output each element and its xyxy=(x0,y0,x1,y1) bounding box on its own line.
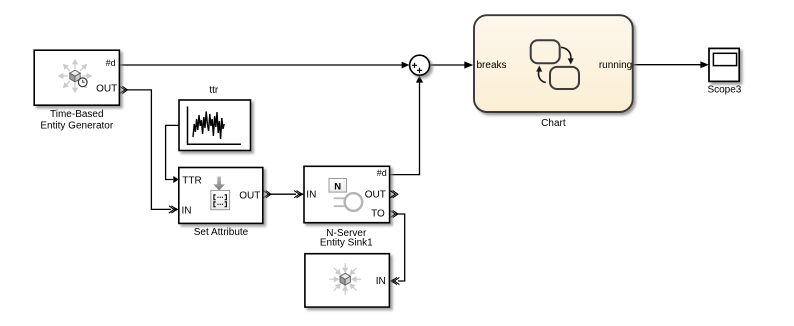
plus sign left input xyxy=(412,63,417,68)
svg-text:#d: #d xyxy=(106,58,116,68)
block N-Server Entity Sink1 xyxy=(304,166,398,248)
block Entity Sink xyxy=(305,254,390,307)
wire Chart running to Scope3 xyxy=(633,61,709,68)
svg-text:ttr: ttr xyxy=(209,85,219,96)
svg-text:running: running xyxy=(599,60,632,71)
wire N-Server TO to Entity Sink IN xyxy=(389,210,404,284)
svg-text:IN: IN xyxy=(306,190,316,201)
svg-text:TO: TO xyxy=(371,209,385,220)
icon starburst in xyxy=(323,257,368,302)
wire Sum to Chart breaks xyxy=(430,61,474,68)
wire branch to scope ttr and TTR port xyxy=(166,125,179,183)
wire OUT Time-Based Entity Generator to Set Attribute IN xyxy=(120,86,179,213)
svg-text:Chart: Chart xyxy=(541,118,566,129)
svg-text:OUT: OUT xyxy=(365,190,386,201)
transition arrow left xyxy=(539,72,546,83)
wire #d Time-Based Entity Generator to Sum xyxy=(120,62,410,69)
state box 2 xyxy=(550,67,579,89)
block Scope3 xyxy=(707,48,741,95)
icon server circle xyxy=(345,193,363,211)
svg-text:Entity Sink1: Entity Sink1 xyxy=(320,237,373,248)
plus sign bottom input xyxy=(417,68,422,73)
svg-text:#d: #d xyxy=(377,168,387,178)
svg-text:Set Attribute: Set Attribute xyxy=(194,227,249,238)
wire Set Attribute OUT to N-Server IN xyxy=(263,191,304,198)
svg-text:Scope3: Scope3 xyxy=(707,85,741,96)
svg-text:TTR: TTR xyxy=(182,175,201,186)
svg-text:IN: IN xyxy=(182,206,192,217)
svg-text:Entity Generator: Entity Generator xyxy=(40,121,113,132)
port chevron OUT unconnected xyxy=(390,191,395,198)
svg-text:IN: IN xyxy=(376,276,386,287)
block Set Attribute xyxy=(179,168,263,239)
svg-text:OUT: OUT xyxy=(96,84,117,95)
svg-text:N: N xyxy=(334,181,341,192)
wire N-Server #d to Sum bottom input xyxy=(390,76,423,175)
scope axes xyxy=(188,107,242,145)
block Time-Based Entity Generator xyxy=(34,50,119,131)
icon cube xyxy=(70,70,80,82)
icon clock xyxy=(78,78,87,87)
transition arrow right xyxy=(561,47,571,58)
scope screen xyxy=(713,53,736,65)
icon cube xyxy=(340,273,350,285)
sum block xyxy=(410,55,430,75)
icon starburst out xyxy=(52,53,97,98)
svg-text:OUT: OUT xyxy=(239,190,260,201)
icon gray down arrow xyxy=(213,177,225,191)
svg-text:breaks: breaks xyxy=(477,60,507,71)
svg-text:Time-Based: Time-Based xyxy=(50,109,104,120)
chart Stateflow xyxy=(474,15,633,129)
scope ttr xyxy=(179,85,251,151)
state box 1 xyxy=(531,40,560,63)
icon N box xyxy=(329,179,347,193)
icon attribute box xyxy=(211,190,230,209)
scope signal xyxy=(193,112,224,140)
